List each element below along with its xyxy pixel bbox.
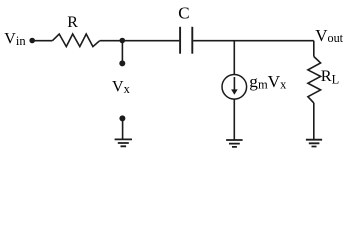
node Vin dot — [29, 38, 35, 44]
svg-text:R: R — [67, 14, 78, 31]
node Vx reference dot — [119, 115, 125, 121]
ground under current source — [226, 140, 243, 147]
svg-text:C: C — [178, 3, 189, 22]
ground under Vx — [115, 139, 132, 146]
current source circle U1 — [222, 75, 247, 100]
node Vx stub dot — [119, 60, 125, 66]
capacitor C left plate — [179, 27, 181, 54]
svg-text:gmVx: gmVx — [249, 72, 287, 91]
wire RL to ground — [313, 103, 315, 140]
current source arrow shaft — [233, 77, 235, 91]
wire corner down to RL — [313, 41, 315, 57]
resistor R — [52, 34, 99, 47]
wire C to corner — [193, 40, 314, 42]
ground under RL — [306, 140, 322, 147]
capacitor C right plate — [191, 27, 193, 54]
svg-text:RL: RL — [321, 66, 339, 87]
node Vx junction dot — [120, 38, 126, 44]
wire bottom of current source — [233, 99, 235, 140]
wire top of current source — [233, 41, 235, 75]
wire Vin to R — [32, 40, 52, 42]
svg-text:Vin: Vin — [4, 30, 26, 48]
wire R to C — [100, 40, 180, 42]
current source arrowhead — [231, 89, 238, 94]
svg-text:Vx: Vx — [112, 79, 131, 96]
resistor RL — [308, 57, 321, 103]
wire Vx reference stub — [122, 119, 124, 140]
svg-text:Vout: Vout — [315, 26, 343, 45]
wire stub node Vx — [121, 41, 123, 62]
